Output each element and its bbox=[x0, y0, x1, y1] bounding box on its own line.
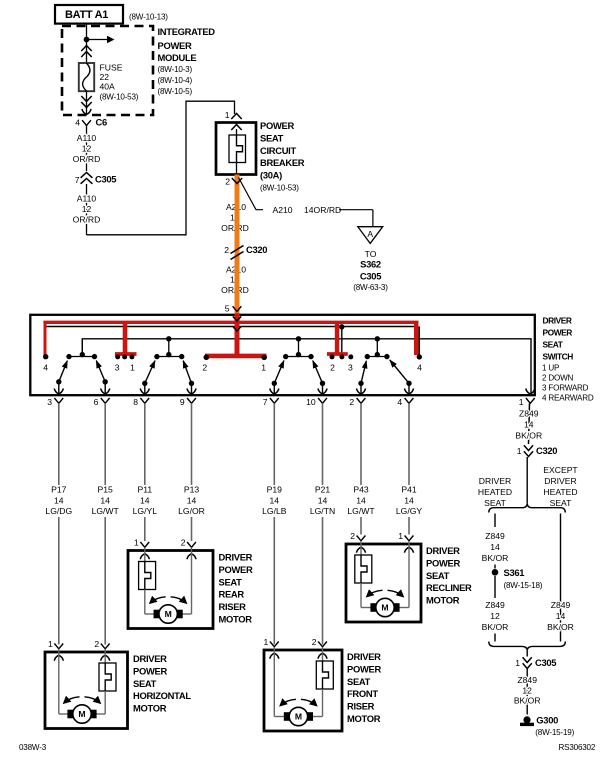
svg-text:3: 3 bbox=[115, 363, 120, 373]
wire A110 12 OR/RD (upper) bbox=[86, 126, 88, 172]
svg-text:4 REARWARD: 4 REARWARD bbox=[542, 393, 594, 402]
svg-text:P21: P21 bbox=[315, 485, 331, 495]
svg-text:1: 1 bbox=[398, 531, 403, 541]
svg-text:12: 12 bbox=[82, 144, 92, 154]
svg-text:P41: P41 bbox=[401, 485, 417, 495]
svg-text:22: 22 bbox=[100, 72, 110, 82]
svg-text:(30A): (30A) bbox=[260, 170, 282, 181]
svg-text:40A: 40A bbox=[100, 82, 116, 92]
black feed line inside switch bbox=[47, 326, 419, 328]
switch output pins with terminals bbox=[47, 389, 535, 408]
wire P17 14 LG/DG bbox=[45, 403, 72, 644]
svg-text:LG/TN: LG/TN bbox=[310, 506, 335, 516]
switch pole rear riser (pins 8,9) bbox=[142, 336, 194, 393]
red T contact 2 / 3 bbox=[341, 327, 343, 354]
svg-text:M: M bbox=[78, 709, 85, 719]
svg-text:DRIVER: DRIVER bbox=[133, 653, 167, 664]
svg-text:OR/RD: OR/RD bbox=[73, 215, 101, 225]
svg-text:LG/GY: LG/GY bbox=[396, 506, 423, 516]
svg-text:INTEGRATED: INTEGRATED bbox=[158, 26, 216, 37]
fuse 22 40A bbox=[79, 62, 139, 101]
svg-text:BK/OR: BK/OR bbox=[515, 431, 542, 441]
svg-text:OR/RD: OR/RD bbox=[73, 154, 101, 164]
svg-text:LG/DG: LG/DG bbox=[45, 506, 72, 516]
svg-text:P17: P17 bbox=[51, 485, 67, 495]
svg-text:M: M bbox=[381, 603, 388, 613]
svg-text:(8W-10-13): (8W-10-13) bbox=[129, 13, 168, 22]
red feed from pin 5 and wide T contact 2 / 1 bbox=[235, 314, 240, 355]
svg-text:SEAT: SEAT bbox=[426, 570, 450, 581]
driver power seat horizontal motor bbox=[45, 639, 191, 728]
svg-text:1: 1 bbox=[48, 639, 53, 649]
svg-text:P15: P15 bbox=[98, 485, 114, 495]
svg-text:C320: C320 bbox=[536, 445, 557, 456]
svg-text:1: 1 bbox=[519, 397, 524, 407]
svg-text:10: 10 bbox=[306, 397, 316, 407]
svg-text:1: 1 bbox=[261, 363, 266, 373]
svg-text:12: 12 bbox=[522, 686, 532, 696]
wire Z849 12 BK/OR to ground bbox=[514, 669, 541, 715]
svg-text:LG/YL: LG/YL bbox=[133, 506, 158, 516]
svg-text:12: 12 bbox=[490, 611, 500, 621]
wire P13 14 LG/OR bbox=[178, 403, 205, 541]
svg-text:4: 4 bbox=[43, 363, 48, 373]
svg-text:2: 2 bbox=[181, 538, 186, 548]
driver power seat rear riser motor bbox=[128, 538, 253, 629]
svg-text:A: A bbox=[367, 229, 373, 239]
svg-text:2: 2 bbox=[225, 176, 230, 186]
svg-text:(8W-10-53): (8W-10-53) bbox=[100, 92, 139, 101]
svg-text:DRIVER: DRIVER bbox=[219, 552, 253, 563]
svg-text:SWITCH: SWITCH bbox=[543, 352, 574, 362]
connector C305 pin 1 bbox=[515, 657, 556, 669]
wire A210 orange from breaker to switch pin 5 bbox=[235, 175, 240, 317]
svg-text:1: 1 bbox=[517, 446, 522, 456]
svg-text:BK/OR: BK/OR bbox=[514, 696, 541, 706]
svg-text:Z849: Z849 bbox=[517, 675, 537, 685]
svg-text:DRIVER: DRIVER bbox=[347, 651, 381, 662]
svg-text:LG/LB: LG/LB bbox=[262, 506, 287, 516]
svg-text:BK/OR: BK/OR bbox=[547, 622, 574, 632]
battery feed box BATT A1 bbox=[55, 5, 168, 24]
wire P21 14 LG/TN bbox=[310, 403, 335, 644]
svg-text:SEAT: SEAT bbox=[550, 498, 573, 508]
svg-text:1: 1 bbox=[134, 538, 139, 548]
svg-text:14: 14 bbox=[556, 611, 566, 621]
svg-text:M: M bbox=[165, 609, 172, 619]
driver power seat switch box bbox=[30, 315, 535, 395]
svg-text:HORIZONTAL: HORIZONTAL bbox=[133, 690, 191, 701]
svg-text:M: M bbox=[295, 712, 302, 722]
svg-text:7: 7 bbox=[75, 175, 80, 185]
svg-text:Z849: Z849 bbox=[485, 531, 505, 541]
svg-text:14: 14 bbox=[54, 495, 64, 505]
svg-text:DRIVER: DRIVER bbox=[479, 476, 511, 486]
red drop to contact 4 (left) bbox=[44, 322, 47, 356]
svg-text:P43: P43 bbox=[353, 485, 369, 495]
svg-text:3 FORWARD: 3 FORWARD bbox=[542, 383, 589, 392]
svg-text:C6: C6 bbox=[96, 116, 107, 127]
svg-text:3: 3 bbox=[348, 363, 353, 373]
connector chevrons below fuse bbox=[86, 91, 88, 114]
wire P43 14 LG/WT bbox=[347, 403, 375, 534]
svg-text:1: 1 bbox=[515, 658, 520, 668]
svg-text:2: 2 bbox=[224, 245, 229, 255]
svg-text:POWER: POWER bbox=[426, 557, 460, 568]
svg-text:038W-3: 038W-3 bbox=[19, 743, 47, 752]
ground bus inside switch bbox=[82, 339, 531, 394]
svg-text:S361: S361 bbox=[504, 567, 525, 578]
svg-text:RECLINER: RECLINER bbox=[426, 582, 472, 593]
driver power seat front riser motor bbox=[264, 637, 382, 731]
svg-text:SEAT: SEAT bbox=[543, 340, 564, 350]
svg-text:G300: G300 bbox=[536, 715, 558, 726]
red B+ bus inside switch bbox=[43, 321, 418, 324]
svg-text:Z849: Z849 bbox=[519, 409, 539, 419]
svg-text:MOTOR: MOTOR bbox=[133, 703, 167, 714]
svg-text:DRIVER: DRIVER bbox=[426, 545, 460, 556]
svg-text:DRIVER: DRIVER bbox=[544, 476, 576, 486]
svg-text:TO: TO bbox=[365, 249, 377, 259]
svg-text:14OR/RD: 14OR/RD bbox=[304, 205, 341, 215]
svg-text:RISER: RISER bbox=[219, 601, 247, 612]
svg-text:POWER: POWER bbox=[133, 665, 167, 676]
connector C320 pin 1 (lower) bbox=[517, 445, 558, 457]
svg-text:14: 14 bbox=[140, 495, 150, 505]
svg-text:BK/OR: BK/OR bbox=[482, 553, 509, 563]
svg-text:C305: C305 bbox=[360, 271, 381, 282]
arrows on feed at pin 5 entry bbox=[233, 316, 241, 321]
svg-text:MOTOR: MOTOR bbox=[426, 595, 460, 606]
switch pole front riser (pins 7,10) bbox=[272, 336, 326, 393]
svg-text:MODULE: MODULE bbox=[158, 52, 197, 63]
svg-text:A110: A110 bbox=[77, 133, 97, 143]
svg-text:RS306302: RS306302 bbox=[559, 743, 596, 752]
svg-text:(8W-15-18): (8W-15-18) bbox=[504, 581, 543, 590]
svg-text:HEATED: HEATED bbox=[543, 487, 577, 497]
wire run to breaker pin 1 bbox=[87, 101, 235, 235]
svg-text:MOTOR: MOTOR bbox=[219, 614, 253, 625]
svg-text:1: 1 bbox=[230, 275, 235, 285]
svg-text:BREAKER: BREAKER bbox=[260, 157, 305, 168]
svg-text:SEAT: SEAT bbox=[219, 576, 243, 587]
svg-text:Z849: Z849 bbox=[485, 600, 505, 610]
svg-text:2: 2 bbox=[349, 397, 354, 407]
svg-text:3: 3 bbox=[47, 397, 52, 407]
svg-text:1: 1 bbox=[130, 363, 135, 373]
svg-text:POWER: POWER bbox=[219, 564, 253, 575]
driver power seat recliner motor bbox=[346, 531, 472, 622]
svg-text:2: 2 bbox=[312, 637, 317, 647]
splice S361 bbox=[492, 569, 499, 576]
svg-text:(8W-63-3): (8W-63-3) bbox=[353, 283, 388, 292]
svg-text:MOTOR: MOTOR bbox=[347, 713, 381, 724]
svg-text:DRIVER: DRIVER bbox=[543, 315, 572, 325]
left branch wire Z849 14 BK/OR bbox=[494, 514, 496, 528]
svg-text:Z849: Z849 bbox=[551, 600, 571, 610]
wire BATT A1 to fuse bbox=[86, 24, 88, 62]
svg-text:14: 14 bbox=[100, 495, 110, 505]
svg-text:CIRCUIT: CIRCUIT bbox=[260, 145, 296, 156]
svg-text:(8W-10-53): (8W-10-53) bbox=[260, 184, 299, 193]
svg-text:12: 12 bbox=[82, 204, 92, 214]
svg-text:SEAT: SEAT bbox=[133, 678, 157, 689]
svg-text:2: 2 bbox=[94, 639, 99, 649]
switch pole up/down (pins 3,6) bbox=[56, 339, 108, 394]
svg-text:BK/OR: BK/OR bbox=[482, 622, 509, 632]
svg-text:LG/WT: LG/WT bbox=[92, 506, 120, 516]
svg-text:7: 7 bbox=[263, 397, 268, 407]
svg-text:14: 14 bbox=[524, 420, 534, 430]
svg-text:P19: P19 bbox=[267, 485, 283, 495]
wire P11 14 LG/YL bbox=[133, 403, 158, 541]
svg-text:C320: C320 bbox=[246, 244, 267, 255]
svg-text:POWER: POWER bbox=[260, 120, 294, 131]
svg-text:4: 4 bbox=[75, 117, 80, 127]
svg-text:SEAT: SEAT bbox=[484, 498, 507, 508]
svg-text:LG/WT: LG/WT bbox=[347, 506, 375, 516]
svg-text:RISER: RISER bbox=[347, 701, 375, 712]
wire Z849 14 BK/OR from switch pin 1 bbox=[515, 403, 542, 444]
svg-text:1: 1 bbox=[264, 637, 269, 647]
red T contact 3 / 1 bbox=[123, 322, 128, 354]
svg-text:(8W-10-3): (8W-10-3) bbox=[158, 65, 193, 74]
svg-text:6: 6 bbox=[94, 397, 99, 407]
svg-text:S362: S362 bbox=[360, 259, 381, 270]
svg-text:1: 1 bbox=[230, 212, 235, 222]
wire A110 12 OR/RD (lower) to circuit breaker bbox=[86, 184, 88, 235]
integrated power module dashed box bbox=[62, 26, 215, 115]
svg-text:1: 1 bbox=[225, 110, 230, 120]
merge brace bbox=[489, 642, 566, 651]
split brace heated/except heated bbox=[489, 503, 566, 512]
svg-text:POWER: POWER bbox=[158, 40, 192, 51]
svg-text:A210: A210 bbox=[273, 205, 293, 215]
svg-text:POWER: POWER bbox=[347, 663, 381, 674]
svg-text:P13: P13 bbox=[184, 485, 200, 495]
svg-text:14: 14 bbox=[187, 495, 197, 505]
svg-text:9: 9 bbox=[180, 397, 185, 407]
wire P41 14 LG/GY bbox=[396, 403, 423, 534]
svg-text:EXCEPT: EXCEPT bbox=[543, 465, 578, 475]
svg-text:14: 14 bbox=[270, 495, 280, 505]
svg-text:POWER: POWER bbox=[543, 328, 573, 338]
svg-text:4: 4 bbox=[417, 363, 422, 373]
node splice in IPM with branch arrow bbox=[84, 37, 90, 43]
svg-text:C305: C305 bbox=[535, 657, 556, 668]
svg-text:LG/OR: LG/OR bbox=[178, 506, 205, 516]
svg-text:FRONT: FRONT bbox=[347, 688, 378, 699]
wire P19 14 LG/LB bbox=[262, 403, 287, 644]
svg-text:BATT A1: BATT A1 bbox=[65, 9, 108, 21]
svg-text:(8W-15-19): (8W-15-19) bbox=[535, 728, 574, 737]
svg-text:P11: P11 bbox=[137, 485, 152, 495]
svg-text:A110: A110 bbox=[77, 194, 97, 204]
svg-text:8: 8 bbox=[133, 397, 138, 407]
svg-text:14: 14 bbox=[404, 495, 414, 505]
switch pin 5 terminal bbox=[233, 306, 242, 311]
wire stem to split bbox=[526, 457, 528, 503]
svg-text:(8W-10-5): (8W-10-5) bbox=[158, 87, 193, 96]
svg-text:1 UP: 1 UP bbox=[542, 364, 559, 373]
svg-text:FUSE: FUSE bbox=[100, 62, 123, 72]
svg-text:C305: C305 bbox=[95, 174, 116, 185]
red drop to contact 4 (right) bbox=[418, 327, 420, 357]
svg-text:HEATED: HEATED bbox=[478, 487, 512, 497]
svg-text:2 DOWN: 2 DOWN bbox=[542, 374, 574, 383]
svg-text:(8W-10-4): (8W-10-4) bbox=[158, 76, 193, 85]
svg-text:4: 4 bbox=[397, 397, 402, 407]
svg-text:2: 2 bbox=[330, 363, 335, 373]
svg-text:SEAT: SEAT bbox=[260, 132, 284, 143]
svg-text:2: 2 bbox=[350, 531, 355, 541]
switch pole recliner (pins 2,4) bbox=[358, 336, 411, 393]
svg-text:REAR: REAR bbox=[219, 589, 245, 600]
svg-text:14: 14 bbox=[356, 495, 366, 505]
ground G300 bbox=[523, 716, 530, 723]
callout A210 14OR/RD to S362 bbox=[239, 178, 264, 210]
svg-text:2: 2 bbox=[202, 363, 207, 373]
power seat circuit breaker box bbox=[216, 120, 305, 193]
svg-text:SEAT: SEAT bbox=[347, 676, 371, 687]
svg-text:5: 5 bbox=[225, 303, 230, 313]
wire P15 14 LG/WT bbox=[92, 403, 120, 644]
svg-text:14: 14 bbox=[318, 495, 328, 505]
svg-text:14: 14 bbox=[490, 542, 500, 552]
right branch wire Z849 14 BK/OR bbox=[547, 514, 574, 642]
off-page triangle A to S362 C305 bbox=[358, 227, 383, 244]
connector chevrons to fuse bbox=[81, 46, 91, 52]
